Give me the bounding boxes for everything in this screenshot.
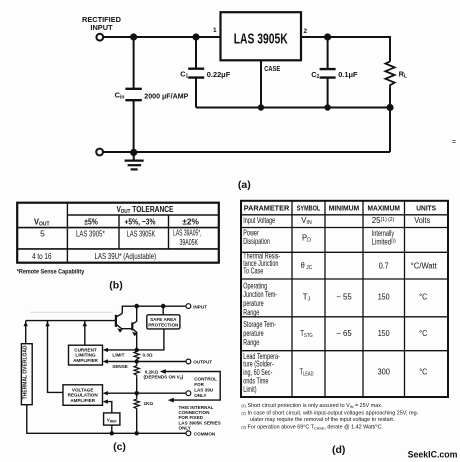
scan artifact faint line	[30, 311, 113, 313]
wire: vref to amp	[106, 402, 112, 413]
svg-text:1KΩ: 1KΩ	[144, 401, 154, 406]
svg-text:39A05K: 39A05K	[179, 237, 198, 247]
ground	[133, 152, 135, 160]
svg-text:±2%: ±2%	[182, 216, 199, 226]
svg-text:CASE: CASE	[264, 64, 280, 73]
svg-text:COMMON: COMMON	[194, 432, 216, 437]
svg-text:To Case: To Case	[243, 267, 263, 276]
svg-text:2000 μF/AMP: 2000 μF/AMP	[144, 91, 188, 100]
svg-text:Input Voltage: Input Voltage	[243, 216, 275, 225]
capacitor C2	[327, 37, 329, 69]
resistor 0.3 ohm	[134, 350, 139, 361]
box vref	[104, 413, 120, 425]
svg-text:4 to 16: 4 to 16	[32, 251, 52, 261]
capacitor C1	[195, 37, 197, 69]
svg-text:SAFE AREA: SAFE AREA	[150, 317, 177, 322]
svg-text:ing, 60 Sec-: ing, 60 Sec-	[243, 368, 272, 377]
svg-text:(3) For operation above 69°C T: (3) For operation above 69°C TCASE, dera…	[241, 425, 383, 431]
wire: safe area bottom to limit node	[137, 329, 164, 350]
svg-text:SYMBOL: SYMBOL	[297, 203, 321, 212]
node: CONTROL terminal	[186, 391, 191, 396]
svg-text:AMPLIFIER: AMPLIFIER	[73, 358, 98, 363]
svg-text:MINIMUM: MINIMUM	[329, 203, 359, 212]
svg-text:VREF: VREF	[107, 417, 117, 423]
wire: drive rail	[26, 320, 115, 322]
box current limiting amplifier	[69, 345, 103, 365]
svg-text:LAS 39U* (Adjustable): LAS 39U* (Adjustable)	[94, 251, 156, 261]
wire: common rail	[26, 432, 186, 434]
svg-text:INPUT: INPUT	[193, 304, 207, 309]
capacitor Cin	[133, 37, 135, 89]
node: junction RL bottom	[386, 104, 393, 111]
wire: 1k to common	[136, 410, 138, 433]
node: junction 1k common	[135, 431, 139, 435]
svg-text:OUTPUT: OUTPUT	[193, 360, 212, 365]
wire: RL drop to mid rail	[389, 36, 391, 62]
box voltage regulation amplifier	[63, 385, 103, 406]
wire: vref to common	[111, 425, 113, 433]
svg-text:(2) In case of short circuit,: (2) In case of short circuit, with input…	[241, 411, 418, 417]
wire: control line	[106, 392, 186, 394]
svg-text:ONLY: ONLY	[179, 426, 191, 431]
svg-text:Volts: Volts	[414, 216, 430, 225]
wire: safe area top	[162, 306, 164, 315]
node: junction control divider	[135, 391, 139, 395]
table b row line pct header	[17, 227, 219, 229]
arrowhead Q1 emitter	[117, 328, 122, 333]
svg-text:1: 1	[213, 27, 217, 34]
svg-text:PARAMETER: PARAMETER	[244, 203, 290, 212]
box safe area protection	[147, 315, 180, 329]
svg-text:LAS 3905*: LAS 3905*	[76, 229, 105, 239]
table b outer border	[17, 203, 219, 263]
node: junction C2 bottom	[324, 104, 330, 110]
svg-text:=: =	[452, 139, 456, 146]
wire: input rail	[122, 306, 185, 313]
svg-text:°C: °C	[419, 293, 427, 302]
bracket arrow LAS 39U control	[164, 372, 221, 401]
arrowhead drive rail left	[24, 322, 28, 327]
node: junction ground rail	[130, 149, 137, 156]
svg-text:±5%: ±5%	[84, 216, 98, 226]
svg-text:0.3Ω: 0.3Ω	[143, 353, 153, 358]
svg-text:LAS 3905K: LAS 3905K	[234, 31, 288, 48]
svg-text:SENSE: SENSE	[112, 364, 128, 369]
table d outer border	[241, 201, 448, 397]
wire: thermal overload bottom	[26, 405, 28, 434]
arrowhead limit into amp	[103, 348, 108, 352]
svg-text:+5%, −3%: +5%, −3%	[125, 216, 156, 226]
table b column line 3	[168, 215, 170, 249]
svg-text:(c): (c)	[113, 441, 126, 453]
svg-text:Junction Tem-: Junction Tem-	[243, 290, 277, 299]
wire: pin2 to RL top	[301, 36, 390, 38]
transistor Q2	[131, 322, 133, 330]
svg-text:°C: °C	[419, 368, 427, 377]
node: junction safe area rail	[161, 304, 166, 309]
svg-text:SeekIC.com: SeekIC.com	[408, 450, 458, 460]
wire: ground rail	[103, 151, 390, 153]
svg-text:PROTECTION: PROTECTION	[148, 323, 179, 328]
node: junction CASE rail	[258, 104, 264, 110]
arrowhead vref into amp	[103, 399, 108, 403]
table b row line 5	[17, 248, 219, 250]
node: INPUT terminal	[186, 304, 191, 309]
node: junction C1 top	[192, 33, 199, 40]
node: junction sense output	[135, 359, 139, 363]
svg-text:− 65: − 65	[336, 329, 352, 338]
resistor RL	[385, 61, 394, 87]
table b row line tolerance header	[67, 214, 218, 216]
box thermal overload	[21, 344, 32, 405]
svg-text:LIMIT: LIMIT	[112, 353, 124, 358]
wire: current limit amp to drive rail	[84, 321, 86, 346]
svg-text:perature: perature	[243, 299, 264, 308]
svg-text:(1) Short circuit protection i: (1) Short circuit protection is only ass…	[241, 403, 382, 409]
node: input terminal	[96, 34, 103, 41]
wire: voltage reg amp to drive rail	[48, 321, 64, 393]
node: ground terminal	[96, 149, 103, 156]
svg-text:(b): (b)	[109, 280, 122, 292]
node: COMMON terminal	[186, 431, 191, 436]
wire: limit line	[106, 349, 137, 351]
svg-text:300: 300	[377, 368, 390, 377]
svg-text:CONTROL: CONTROL	[194, 376, 217, 381]
svg-text:0.22μF: 0.22μF	[207, 70, 231, 79]
svg-text:ONLY: ONLY	[194, 393, 206, 398]
node: junction vref common	[110, 431, 114, 435]
arrowhead drive rail right	[83, 322, 87, 327]
svg-text:Range: Range	[243, 338, 259, 347]
wire: mid rail	[196, 107, 390, 109]
svg-text:0.1μF: 0.1μF	[338, 70, 358, 79]
svg-text:− 55: − 55	[336, 293, 352, 302]
wire: input top rail	[103, 36, 220, 38]
resistor 1k	[134, 397, 139, 410]
node: junction Cin top	[130, 33, 137, 40]
svg-text:THERMAL OVERLOAD: THERMAL OVERLOAD	[23, 345, 29, 399]
svg-text:150: 150	[378, 329, 390, 338]
table d column lines	[291, 201, 293, 397]
table b column line 1	[66, 203, 68, 263]
svg-text:Range: Range	[243, 308, 259, 317]
arrowhead bracket bottom	[168, 398, 174, 403]
svg-text:0.2KΩ: 0.2KΩ	[145, 369, 159, 374]
transistor Q1	[115, 315, 117, 327]
svg-text:(a): (a)	[238, 179, 251, 191]
svg-text:Operating: Operating	[243, 281, 267, 290]
arrowhead sense into amp	[103, 359, 108, 363]
svg-text:(d): (d)	[332, 444, 345, 456]
svg-text:150: 150	[378, 293, 390, 302]
arrowhead control into amp	[103, 391, 108, 395]
svg-text:LAS 39U: LAS 39U	[194, 387, 214, 392]
svg-text:5: 5	[40, 229, 45, 239]
arrowhead bracket top	[160, 369, 166, 374]
svg-text:ulater may require the removal: ulater may require the removal of the in…	[250, 417, 394, 423]
node: junction Q2 collector rail	[134, 304, 139, 309]
svg-text:Limit): Limit)	[243, 385, 257, 394]
arrowhead drive rail mid	[45, 322, 49, 327]
svg-text:°C: °C	[419, 329, 427, 338]
svg-text:Storage Tem-: Storage Tem-	[243, 320, 276, 329]
svg-text:2: 2	[304, 28, 308, 35]
svg-text:°C/Watt: °C/Watt	[411, 261, 438, 270]
wire: CASE lead	[260, 60, 262, 107]
svg-text:MAXIMUM: MAXIMUM	[367, 203, 400, 212]
svg-text:INPUT: INPUT	[90, 23, 113, 32]
svg-text:perature: perature	[243, 329, 264, 338]
node: junction C2 top	[324, 33, 331, 40]
wire: sense output line	[106, 361, 186, 363]
svg-text:UNITS: UNITS	[416, 203, 436, 212]
svg-text:LAS 3905K: LAS 3905K	[127, 229, 156, 239]
table b column line 2	[118, 215, 120, 249]
table d row lines	[241, 214, 448, 216]
resistor 0.2k	[134, 362, 139, 379]
svg-text:0.7: 0.7	[379, 261, 389, 270]
arrowhead Q2 emitter	[132, 332, 137, 337]
svg-text:FOR: FOR	[194, 382, 204, 387]
svg-text:AMPLIFIER: AMPLIFIER	[70, 398, 95, 403]
node: OUTPUT terminal	[186, 359, 191, 364]
wire: thermal overload top	[25, 321, 27, 344]
svg-text:(DEPENDS ON V0): (DEPENDS ON V0)	[144, 375, 184, 381]
svg-text:Dissipation: Dissipation	[243, 237, 270, 246]
op-amp U1 box LAS 3905K	[221, 12, 302, 60]
node: junction limit	[135, 348, 139, 352]
svg-text:*Remote Sense Capability: *Remote Sense Capability	[17, 269, 85, 276]
